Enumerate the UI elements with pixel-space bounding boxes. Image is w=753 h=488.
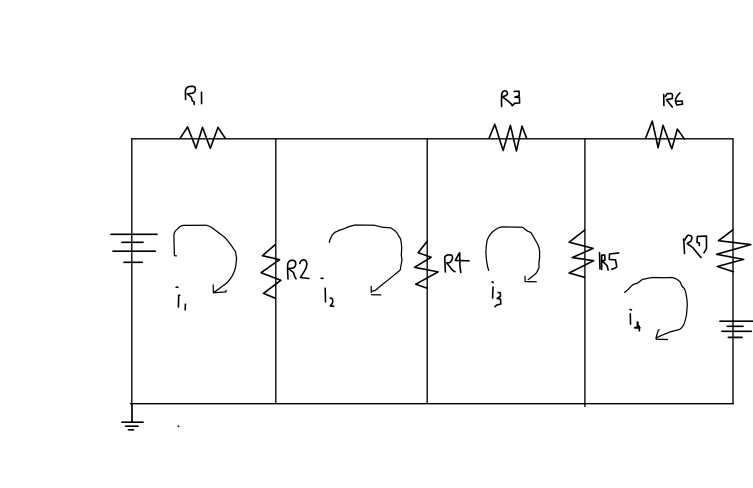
label R6 bbox=[664, 93, 683, 107]
wire branch node B (R2 branch) bbox=[275, 139, 277, 404]
resistor R2 bbox=[261, 245, 281, 299]
mesh current loop i1 bbox=[174, 225, 237, 293]
label R3 bbox=[502, 91, 520, 107]
label R2 bbox=[288, 260, 309, 279]
resistor R3 bbox=[489, 124, 527, 151]
resistor R1 bbox=[180, 127, 225, 148]
wire right bbox=[732, 139, 734, 404]
wire left bbox=[131, 139, 133, 404]
mesh current loop i2 bbox=[329, 225, 402, 295]
resistor R6 bbox=[645, 121, 684, 149]
label R1 bbox=[185, 86, 201, 104]
wire top bbox=[132, 138, 734, 140]
wire branch node D (R5 branch) bbox=[584, 139, 586, 407]
battery V1 (left) bbox=[111, 234, 157, 262]
label R4 bbox=[445, 253, 469, 273]
stray dot near ground bbox=[177, 425, 179, 427]
resistor R4 bbox=[415, 241, 439, 288]
battery V2 (right) bbox=[720, 321, 753, 337]
label R5 bbox=[600, 253, 619, 271]
label i1 bbox=[176, 287, 185, 310]
ground bbox=[122, 404, 143, 430]
label R7 bbox=[684, 235, 707, 257]
mesh current loop i3 bbox=[486, 227, 540, 282]
label i4 bbox=[630, 310, 640, 331]
label i3 bbox=[492, 282, 501, 307]
wire branch node C (R4 branch) bbox=[426, 139, 428, 404]
label i2 bbox=[321, 278, 334, 306]
resistor R5 bbox=[569, 230, 594, 277]
resistor R7 bbox=[717, 230, 751, 272]
wire bottom bbox=[131, 403, 734, 405]
mesh current loop i4 bbox=[625, 278, 688, 340]
